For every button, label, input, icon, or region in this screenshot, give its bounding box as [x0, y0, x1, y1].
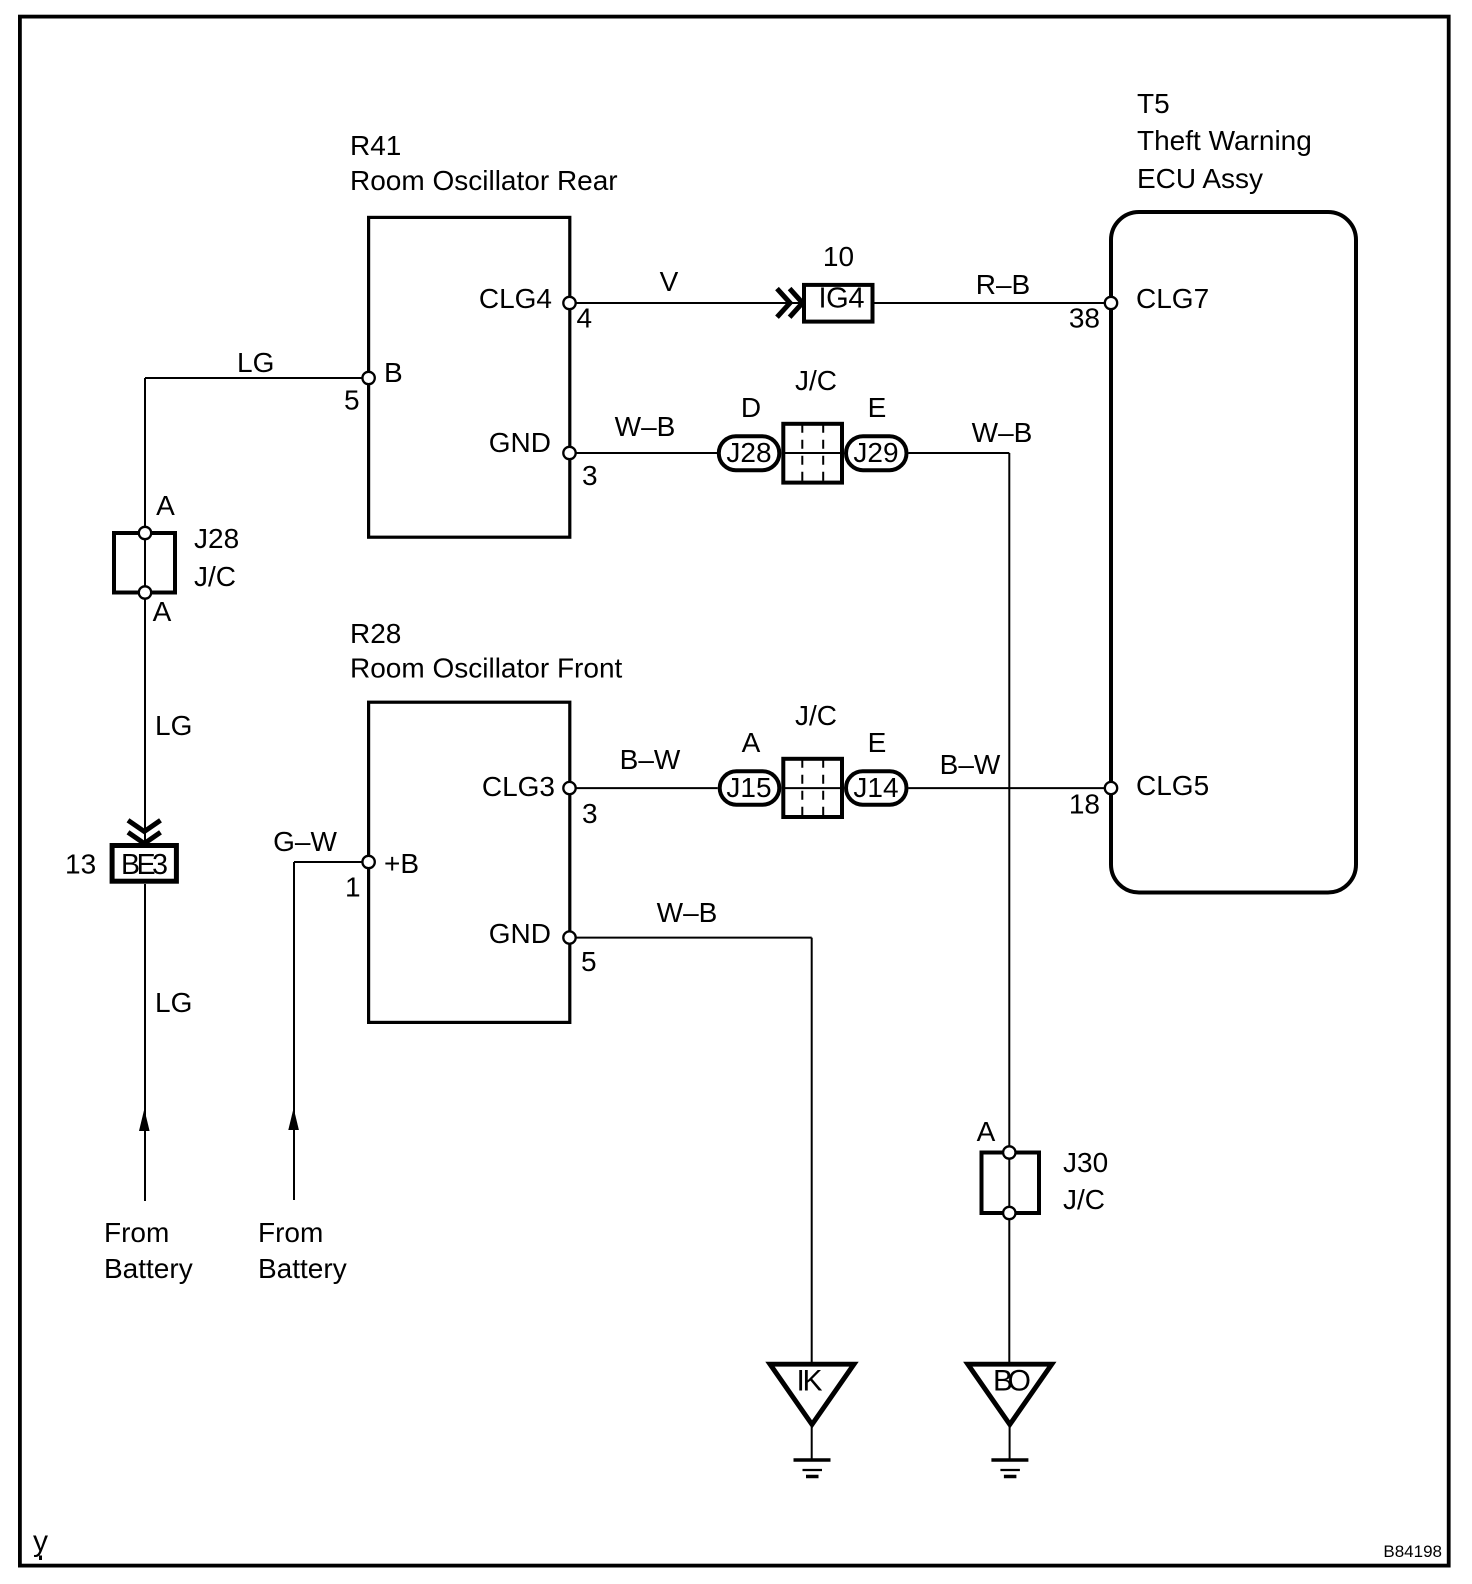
- svg-text:W–B: W–B: [657, 897, 718, 928]
- svg-text:CLG5: CLG5: [1136, 770, 1209, 801]
- svg-text:5: 5: [581, 946, 597, 977]
- svg-text:J/C: J/C: [194, 561, 236, 592]
- svg-text:GND: GND: [489, 918, 551, 949]
- svg-text:J/C: J/C: [1063, 1184, 1105, 1215]
- svg-text:J28: J28: [194, 523, 239, 554]
- svg-text:R41: R41: [350, 130, 401, 161]
- svg-text:3: 3: [582, 460, 598, 491]
- svg-text:Room Oscillator Rear: Room Oscillator Rear: [350, 165, 618, 196]
- svg-text:A: A: [153, 596, 172, 627]
- svg-text:LG: LG: [237, 347, 274, 378]
- svg-text:J30: J30: [1063, 1147, 1108, 1178]
- svg-text:38: 38: [1069, 303, 1100, 334]
- svg-text:A: A: [742, 727, 761, 758]
- svg-text:J14: J14: [853, 772, 898, 803]
- svg-text:J/C: J/C: [795, 700, 837, 731]
- svg-text:4: 4: [577, 303, 593, 334]
- svg-text:13: 13: [65, 849, 96, 880]
- svg-text:T5: T5: [1137, 88, 1170, 119]
- svg-text:1: 1: [345, 872, 361, 903]
- svg-text:ECU Assy: ECU Assy: [1137, 163, 1263, 194]
- svg-text:CLG3: CLG3: [482, 771, 555, 802]
- svg-text:E: E: [868, 727, 887, 758]
- svg-text:B–W: B–W: [620, 744, 681, 775]
- svg-text:B: B: [384, 357, 403, 388]
- svg-text:From: From: [258, 1217, 323, 1248]
- svg-text:LG: LG: [155, 987, 192, 1018]
- svg-text:IK: IK: [797, 1365, 823, 1398]
- svg-text:J28: J28: [726, 437, 771, 468]
- svg-text:A: A: [977, 1116, 996, 1147]
- svg-text:R28: R28: [350, 618, 401, 649]
- svg-text:J/C: J/C: [795, 365, 837, 396]
- svg-text:B–W: B–W: [940, 749, 1001, 780]
- svg-text:D: D: [741, 392, 761, 423]
- svg-text:W–B: W–B: [615, 411, 676, 442]
- svg-text:+B: +B: [384, 848, 419, 879]
- svg-text:CLG7: CLG7: [1136, 283, 1209, 314]
- svg-text:IG4: IG4: [819, 283, 865, 315]
- svg-text:BO: BO: [993, 1365, 1031, 1398]
- svg-text:W–B: W–B: [972, 417, 1033, 448]
- svg-text:BE3: BE3: [121, 849, 168, 881]
- svg-text:CLG4: CLG4: [479, 283, 552, 314]
- svg-text:3: 3: [582, 798, 598, 829]
- svg-text:5: 5: [344, 385, 360, 416]
- svg-text:G–W: G–W: [273, 826, 337, 857]
- svg-text:J29: J29: [853, 437, 898, 468]
- svg-text:Room Oscillator Front: Room Oscillator Front: [350, 653, 623, 684]
- svg-text:10: 10: [823, 241, 854, 272]
- svg-text:J15: J15: [726, 772, 771, 803]
- svg-text:V: V: [660, 266, 679, 297]
- svg-text:y: y: [33, 1525, 48, 1558]
- svg-text:B84198: B84198: [1383, 1542, 1442, 1561]
- svg-text:R–B: R–B: [976, 269, 1030, 300]
- svg-text:Battery: Battery: [258, 1253, 347, 1284]
- svg-text:A: A: [156, 490, 175, 521]
- svg-text:GND: GND: [489, 427, 551, 458]
- svg-text:Battery: Battery: [104, 1253, 193, 1284]
- svg-text:LG: LG: [155, 710, 192, 741]
- svg-text:18: 18: [1069, 789, 1100, 820]
- svg-text:From: From: [104, 1217, 169, 1248]
- svg-text:E: E: [868, 392, 887, 423]
- svg-text:Theft Warning: Theft Warning: [1137, 125, 1312, 156]
